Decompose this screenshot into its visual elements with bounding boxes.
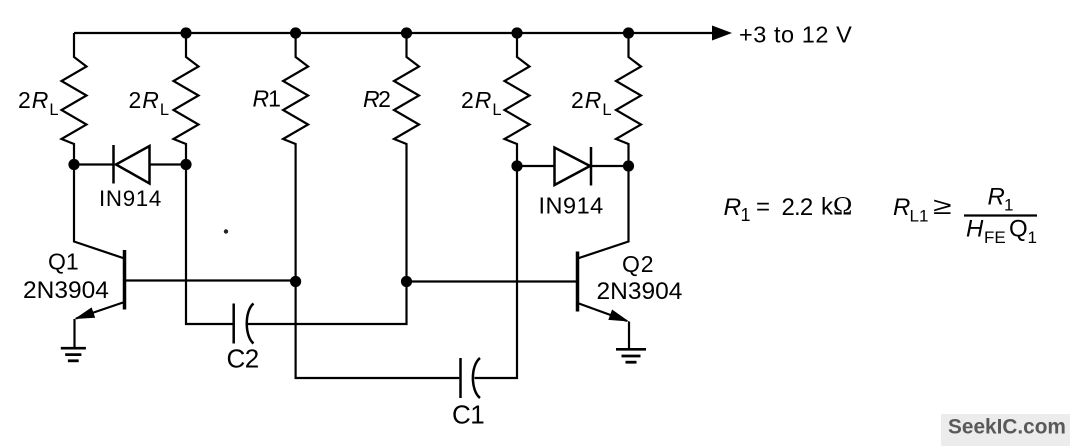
svg-text:=: = bbox=[756, 194, 770, 221]
svg-text:Q: Q bbox=[1009, 216, 1028, 243]
svg-text:R2: R2 bbox=[363, 86, 390, 112]
svg-text:C1: C1 bbox=[452, 400, 484, 430]
wire from R1 node down and to C1 left plate bbox=[296, 282, 460, 379]
svg-text:Q1: Q1 bbox=[48, 249, 79, 275]
C2 left plate bbox=[232, 304, 235, 344]
svg-text:R: R bbox=[893, 194, 910, 221]
base wire R2 node to Q2 bbox=[407, 280, 578, 282]
C2 right plate (curved) bbox=[247, 304, 254, 344]
base bar bbox=[576, 252, 580, 312]
svg-text:1: 1 bbox=[1004, 196, 1013, 215]
svg-text:FE: FE bbox=[984, 228, 1006, 247]
svg-text:2N3904: 2N3904 bbox=[23, 277, 109, 304]
svg-text:L1: L1 bbox=[910, 207, 929, 226]
stray ink speck bbox=[224, 229, 228, 233]
resistor R2 bbox=[394, 33, 419, 282]
svg-text:IN914: IN914 bbox=[539, 193, 604, 219]
transistor Q2 bbox=[578, 166, 630, 349]
junction dots diode row bbox=[68, 159, 634, 172]
svg-text:2.2: 2.2 bbox=[782, 194, 813, 221]
svg-text:≥: ≥ bbox=[933, 193, 952, 220]
diode IN914 left bbox=[74, 145, 186, 184]
base bar bbox=[123, 250, 127, 310]
collector wire bbox=[74, 165, 125, 259]
svg-text:+3 to 12 V: +3 to 12 V bbox=[739, 22, 852, 48]
capacitor C1 bbox=[296, 166, 517, 398]
svg-text:IN914: IN914 bbox=[99, 186, 162, 211]
svg-text:kΩ: kΩ bbox=[821, 192, 852, 221]
svg-text:R1: R1 bbox=[253, 86, 281, 112]
svg-text:R: R bbox=[724, 194, 742, 221]
capacitor C2 bbox=[186, 165, 407, 344]
svg-text:2N3904: 2N3904 bbox=[597, 278, 683, 305]
emitter wire bbox=[76, 302, 125, 319]
wire from diode node down and to C2 left plate bbox=[186, 165, 233, 325]
svg-text:Q2: Q2 bbox=[622, 251, 654, 277]
emitter arrow Q1 bbox=[75, 307, 96, 319]
svg-text:1: 1 bbox=[741, 205, 751, 225]
equation RL1 >= R1/(HFE Q1) bbox=[893, 184, 1037, 248]
diode IN914 right bbox=[517, 147, 629, 186]
ground (Q1 emitter) bbox=[61, 348, 86, 361]
wire from C1 up to diode node bbox=[475, 166, 518, 378]
equation R1 = 2.2 kOhm bbox=[724, 192, 853, 225]
svg-text:1: 1 bbox=[1028, 228, 1037, 247]
C1 right plate (curved) bbox=[473, 358, 480, 398]
base wire Q1 to R1 node bbox=[125, 279, 296, 281]
resistor 2RL #4 (far right) bbox=[616, 33, 641, 166]
resistor R1 bbox=[283, 33, 308, 282]
svg-text:R: R bbox=[988, 184, 1005, 211]
svg-text:H: H bbox=[966, 216, 984, 243]
resistor 2RL #1 (far left) bbox=[62, 33, 87, 165]
power rail +V bbox=[74, 32, 716, 34]
power rail arrowhead bbox=[712, 26, 732, 41]
resistor 2RL #2 bbox=[174, 33, 199, 165]
svg-text:C2: C2 bbox=[227, 344, 259, 374]
wire from C2 to R2 node bbox=[248, 282, 407, 325]
transistor Q1 bbox=[74, 165, 125, 349]
emitter wire bbox=[578, 303, 628, 321]
watermark SeekIC.com bbox=[941, 414, 1070, 446]
C1 left plate bbox=[459, 358, 462, 398]
junction dots on power rail bbox=[180, 27, 634, 38]
resistor 2RL #3 bbox=[505, 33, 530, 166]
ground (Q2 emitter) bbox=[616, 349, 646, 362]
fraction bar bbox=[964, 214, 1037, 216]
emitter arrow Q2 bbox=[608, 310, 629, 322]
junction dots base row bbox=[290, 276, 412, 287]
collector wire bbox=[578, 166, 629, 259]
svg-text:SeekIC.com: SeekIC.com bbox=[948, 416, 1066, 439]
